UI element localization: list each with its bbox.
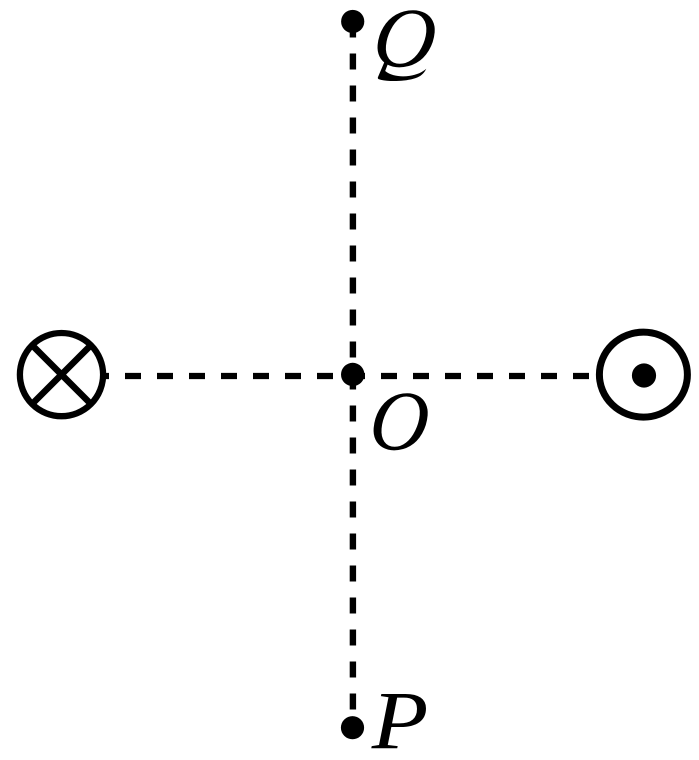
svg-text:O: O: [366, 375, 433, 469]
svg-text:P: P: [371, 675, 429, 760]
